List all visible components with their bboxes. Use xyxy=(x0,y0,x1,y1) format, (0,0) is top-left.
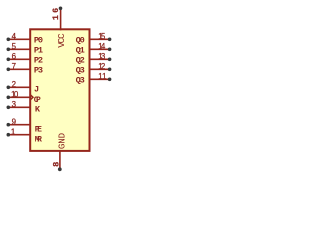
svg-text:4: 4 xyxy=(12,32,17,41)
svg-text:16: 16 xyxy=(51,6,61,20)
svg-text:Q3: Q3 xyxy=(76,76,85,86)
svg-text:P1: P1 xyxy=(34,46,43,56)
svg-text:J: J xyxy=(34,85,39,95)
svg-text:6: 6 xyxy=(12,52,17,61)
svg-text:5: 5 xyxy=(12,42,17,51)
svg-text:5: 5 xyxy=(101,32,106,41)
svg-text:K: K xyxy=(35,104,41,114)
svg-text:9: 9 xyxy=(12,117,17,126)
svg-text:P3: P3 xyxy=(34,66,43,76)
svg-text:Q3: Q3 xyxy=(76,66,85,76)
svg-text:VCC: VCC xyxy=(56,33,67,48)
svg-text:2: 2 xyxy=(101,62,105,71)
svg-text:Q0: Q0 xyxy=(76,36,85,46)
svg-text:P2: P2 xyxy=(34,56,43,66)
svg-text:2: 2 xyxy=(12,80,16,89)
svg-text:0: 0 xyxy=(14,90,19,99)
svg-text:7: 7 xyxy=(12,62,16,71)
svg-text:GND: GND xyxy=(57,132,68,149)
svg-text:Q1: Q1 xyxy=(76,46,85,56)
svg-text:PE: PE xyxy=(35,126,42,135)
svg-text:4: 4 xyxy=(101,42,106,51)
svg-text:MR: MR xyxy=(35,136,42,145)
svg-text:P0: P0 xyxy=(34,36,43,46)
svg-text:3: 3 xyxy=(12,100,17,109)
svg-text:8: 8 xyxy=(52,162,62,167)
svg-text:3: 3 xyxy=(101,52,106,61)
svg-text:Q2: Q2 xyxy=(76,56,85,66)
svg-text:1: 1 xyxy=(102,72,106,81)
svg-text:1: 1 xyxy=(11,127,15,136)
